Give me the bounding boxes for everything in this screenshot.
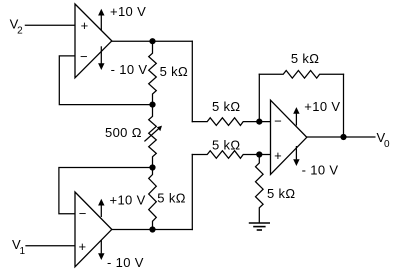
svg-text:+: + <box>81 18 89 33</box>
wire node A down right side <box>191 41 193 121</box>
junction R1/R2 <box>149 102 155 108</box>
resistor R3 5 kOhm horizontal top <box>192 118 270 126</box>
svg-text:5 kΩ: 5 kΩ <box>212 138 240 153</box>
U1 negative supply arrow <box>98 46 104 70</box>
svg-text:5 kΩ: 5 kΩ <box>267 186 295 201</box>
wire V1 input lead <box>26 245 75 247</box>
svg-text:- 10 V: - 10 V <box>107 255 144 270</box>
wire U2 inverting feedback loop <box>59 168 153 214</box>
svg-text:V1: V1 <box>12 237 26 257</box>
svg-text:+: + <box>274 148 282 163</box>
resistor R4 5 kOhm vertical bottom <box>149 168 157 230</box>
resistor R6 5 kOhm feedback <box>259 71 343 79</box>
potentiometer R2 wiper arrowhead <box>157 126 162 132</box>
junction R2/R4 <box>149 164 155 170</box>
junction node A <box>149 38 155 44</box>
svg-text:5 kΩ: 5 kΩ <box>157 190 185 205</box>
svg-text:+10 V: +10 V <box>304 99 340 114</box>
wire U3 feedback left vertical <box>258 74 260 121</box>
resistor R7 5 kOhm to ground <box>256 155 264 223</box>
wire U3 feedback right vertical <box>343 74 345 137</box>
junction node B <box>149 226 155 232</box>
U2 negative supply arrow <box>98 240 104 260</box>
junction U3 inverting input <box>256 119 262 125</box>
junction U3 non-inverting input <box>256 151 262 157</box>
svg-text:500 Ω: 500 Ω <box>105 125 142 140</box>
potentiometer R2 wiper arrow <box>145 127 160 141</box>
svg-text:- 10 V: - 10 V <box>302 162 339 177</box>
svg-text:5 kΩ: 5 kΩ <box>212 99 240 114</box>
svg-text:V2: V2 <box>10 17 24 37</box>
svg-text:−: − <box>80 49 88 64</box>
wire node B up right side <box>191 155 193 230</box>
svg-text:5 kΩ: 5 kΩ <box>160 64 188 79</box>
wire U1 inverting feedback loop <box>59 56 152 105</box>
resistor R5 5 kOhm horizontal bottom <box>192 151 270 159</box>
svg-text:5 kΩ: 5 kΩ <box>291 51 319 66</box>
svg-text:- 10 V: - 10 V <box>111 62 148 77</box>
potentiometer R2 500 Ohm <box>149 105 157 168</box>
U3 negative supply arrow <box>293 146 299 166</box>
svg-text:+10 V: +10 V <box>110 4 146 19</box>
wire U1 output to node A <box>112 40 193 42</box>
U1 positive supply arrow <box>98 9 104 30</box>
wire V2 input lead <box>25 24 75 26</box>
wire U3 output to V0 <box>307 136 375 138</box>
resistor R1 5 kOhm vertical top <box>149 41 157 104</box>
op-amp U2 <box>75 192 112 267</box>
junction output node <box>340 134 346 140</box>
op-amp U3 <box>271 100 307 174</box>
svg-text:+10 V: +10 V <box>110 193 146 208</box>
op-amp U1 <box>75 4 112 78</box>
U3 positive supply arrow <box>293 107 299 125</box>
U2 positive supply arrow <box>98 199 104 217</box>
svg-text:V0: V0 <box>377 130 391 150</box>
svg-text:+: + <box>79 239 87 254</box>
wire U2 output to node B <box>112 229 193 231</box>
svg-text:−: − <box>79 206 87 221</box>
ground <box>249 223 270 230</box>
svg-text:−: − <box>274 114 282 129</box>
